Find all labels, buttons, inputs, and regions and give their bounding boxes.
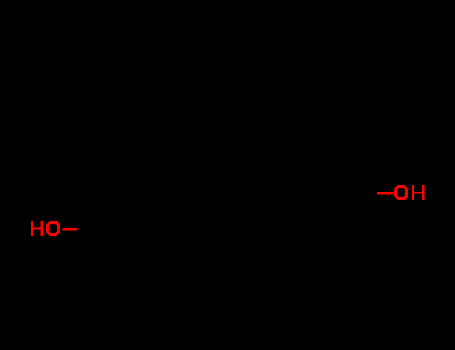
hydroxyl label H (left HO): [31, 221, 43, 236]
hydroxyl label H (right OH): [412, 185, 424, 200]
bond stub (red) from left HO: [63, 228, 78, 231]
hydroxyl label O (left HO): [46, 221, 60, 236]
bond stub (red) to right OH: [377, 192, 393, 195]
hydroxyl label O (right OH): [394, 185, 408, 200]
